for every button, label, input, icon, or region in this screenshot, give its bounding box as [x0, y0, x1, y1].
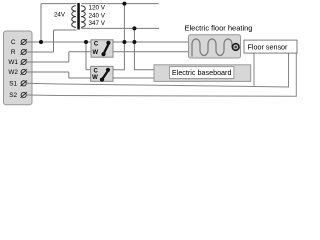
- svg-text:W1: W1: [8, 59, 18, 66]
- svg-text:S1: S1: [9, 81, 17, 88]
- svg-text:S2: S2: [9, 92, 17, 99]
- wire W2 run: [26, 71, 69, 73]
- wire S1 run: [26, 53, 288, 87]
- wire L2 stub from secondary bottom: [82, 27, 160, 29]
- svg-text:Electric baseboard: Electric baseboard: [172, 68, 232, 77]
- svg-text:C: C: [94, 41, 99, 47]
- wire sensor drop: [253, 53, 255, 86]
- terminal screw R: [21, 49, 27, 55]
- terminal screw S1: [21, 81, 27, 87]
- wire W1 jog up: [68, 52, 70, 62]
- wire C branch to relay2 C: [86, 69, 91, 71]
- junction node L1-A: [122, 2, 126, 6]
- wire C up to transformer: [40, 4, 42, 42]
- wire vertical A from L1: [113, 4, 124, 70]
- junction node L2-B: [132, 26, 136, 30]
- svg-text:W2: W2: [8, 69, 18, 76]
- wire W1 run: [26, 61, 69, 63]
- baseboard fins: [171, 79, 231, 81]
- baseboard label plate: [170, 67, 234, 79]
- wire R up: [53, 30, 55, 52]
- svg-text:W: W: [92, 50, 98, 56]
- primary coil: [72, 6, 76, 28]
- wire relay2 bottom to baseboard: [113, 77, 154, 79]
- transformer T1: [54, 3, 106, 30]
- svg-text:Floor sensor: Floor sensor: [248, 42, 289, 51]
- core: [77, 3, 80, 30]
- wire W2 to relay2 W: [69, 77, 91, 79]
- thermostat terminal block: [4, 31, 33, 105]
- junction node C-branch: [84, 40, 88, 44]
- floor sensor probe: [232, 44, 239, 51]
- terminal screw S2: [21, 92, 27, 98]
- electric baseboard box: [154, 65, 251, 82]
- wire C branch down to relay2: [85, 42, 87, 70]
- terminal screw W1: [21, 59, 27, 65]
- wire relay1 W-side to heating bottom: [113, 51, 189, 53]
- junction node B-heatingtop: [132, 40, 136, 44]
- wire relay1 output to heating top: [113, 41, 189, 43]
- wire C run: [26, 41, 91, 43]
- secondary coil: [81, 6, 85, 28]
- svg-text:347 V: 347 V: [89, 20, 106, 27]
- wire transformer primary bottom: [54, 29, 77, 31]
- junction node A-heatingtop: [122, 40, 126, 44]
- wire S2 run: [26, 53, 296, 96]
- wire W1 to relay1 W: [69, 51, 91, 53]
- heating element serpentine: [192, 39, 232, 57]
- electric floor heating box: [189, 35, 241, 58]
- relay K1: [91, 40, 113, 57]
- svg-text:120 V: 120 V: [89, 4, 106, 11]
- svg-text:Electric floor heating: Electric floor heating: [185, 23, 253, 32]
- wire L1 stub from secondary top: [82, 3, 159, 5]
- wire W2 jog down: [68, 72, 70, 78]
- terminal screw C: [21, 39, 27, 45]
- svg-text:C: C: [94, 68, 99, 74]
- relay K2: [91, 66, 113, 81]
- wire vertical B from L2: [134, 28, 154, 69]
- svg-text:C: C: [11, 39, 16, 46]
- floor sensor label box: [244, 40, 297, 53]
- wire R run: [26, 51, 53, 53]
- svg-text:240 V: 240 V: [89, 12, 106, 19]
- terminal screw W2: [21, 69, 27, 75]
- svg-text:24V: 24V: [54, 11, 66, 18]
- svg-text:W: W: [92, 75, 98, 81]
- wire transformer primary top: [41, 3, 77, 5]
- svg-text:R: R: [11, 49, 16, 56]
- junction node C-transformer: [39, 40, 43, 44]
